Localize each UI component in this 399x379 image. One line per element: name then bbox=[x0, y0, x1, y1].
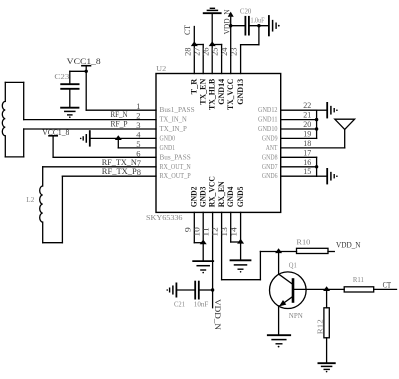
svg-text:L2: L2 bbox=[26, 195, 34, 204]
svg-text:RX_OUT_P: RX_OUT_P bbox=[160, 172, 191, 180]
svg-text:GND5: GND5 bbox=[235, 187, 245, 208]
svg-text:23: 23 bbox=[229, 48, 239, 56]
svg-text:19: 19 bbox=[303, 128, 311, 138]
svg-text:CT: CT bbox=[183, 25, 192, 35]
svg-text:14: 14 bbox=[229, 226, 239, 236]
svg-text:NPN: NPN bbox=[289, 311, 304, 320]
svg-text:VDD_N: VDD_N bbox=[213, 299, 222, 330]
svg-text:GND9: GND9 bbox=[262, 134, 278, 142]
svg-text:VCC1_8: VCC1_8 bbox=[42, 128, 69, 137]
svg-text:GND10: GND10 bbox=[258, 125, 278, 133]
svg-text:TX_IN_N: TX_IN_N bbox=[160, 116, 187, 124]
svg-text:VDD_N: VDD_N bbox=[336, 241, 361, 250]
svg-text:C21: C21 bbox=[174, 299, 185, 308]
svg-text:RF_TX_P: RF_TX_P bbox=[102, 167, 138, 176]
svg-text:GND7: GND7 bbox=[262, 163, 278, 171]
svg-text:TX_VCC: TX_VCC bbox=[225, 79, 235, 110]
svg-text:GND1: GND1 bbox=[160, 144, 176, 152]
svg-text:RF_TX_N: RF_TX_N bbox=[102, 158, 137, 167]
svg-text:GND13: GND13 bbox=[235, 79, 245, 105]
svg-text:RF_N: RF_N bbox=[111, 110, 128, 119]
svg-text:13: 13 bbox=[219, 227, 229, 236]
svg-text:TX_IN_P: TX_IN_P bbox=[160, 125, 187, 133]
svg-text:SKY65336: SKY65336 bbox=[146, 213, 183, 222]
svg-text:17: 17 bbox=[303, 147, 311, 157]
svg-text:R11: R11 bbox=[353, 275, 364, 284]
svg-text:6: 6 bbox=[136, 148, 140, 158]
svg-text:ANT: ANT bbox=[266, 144, 278, 152]
svg-text:CT: CT bbox=[383, 281, 392, 290]
svg-text:GND11: GND11 bbox=[258, 116, 278, 124]
svg-text:GND8: GND8 bbox=[262, 153, 278, 161]
svg-text:GND12: GND12 bbox=[258, 106, 278, 114]
svg-text:R12: R12 bbox=[316, 319, 325, 334]
svg-text:GND4: GND4 bbox=[225, 186, 235, 207]
svg-text:RF_P: RF_P bbox=[111, 119, 129, 128]
svg-text:Q1: Q1 bbox=[289, 261, 297, 270]
svg-text:Bus1_PASS: Bus1_PASS bbox=[160, 106, 195, 114]
svg-text:R10: R10 bbox=[296, 238, 310, 247]
svg-text:VCC1_8: VCC1_8 bbox=[67, 57, 101, 66]
svg-text:GND6: GND6 bbox=[262, 172, 278, 180]
svg-text:15: 15 bbox=[303, 166, 311, 176]
svg-text:VDD_N: VDD_N bbox=[222, 9, 231, 34]
svg-text:C20: C20 bbox=[240, 7, 252, 16]
svg-text:Bus_PASS: Bus_PASS bbox=[160, 153, 191, 161]
svg-text:C23: C23 bbox=[54, 72, 69, 81]
svg-text:8: 8 bbox=[137, 167, 141, 177]
svg-text:RX_OUT_N: RX_OUT_N bbox=[160, 163, 191, 171]
svg-text:1.0uF: 1.0uF bbox=[251, 16, 265, 25]
svg-text:10nF: 10nF bbox=[194, 299, 209, 308]
svg-text:U2: U2 bbox=[156, 64, 166, 73]
svg-text:GND0: GND0 bbox=[160, 134, 176, 142]
svg-text:24: 24 bbox=[219, 47, 229, 56]
